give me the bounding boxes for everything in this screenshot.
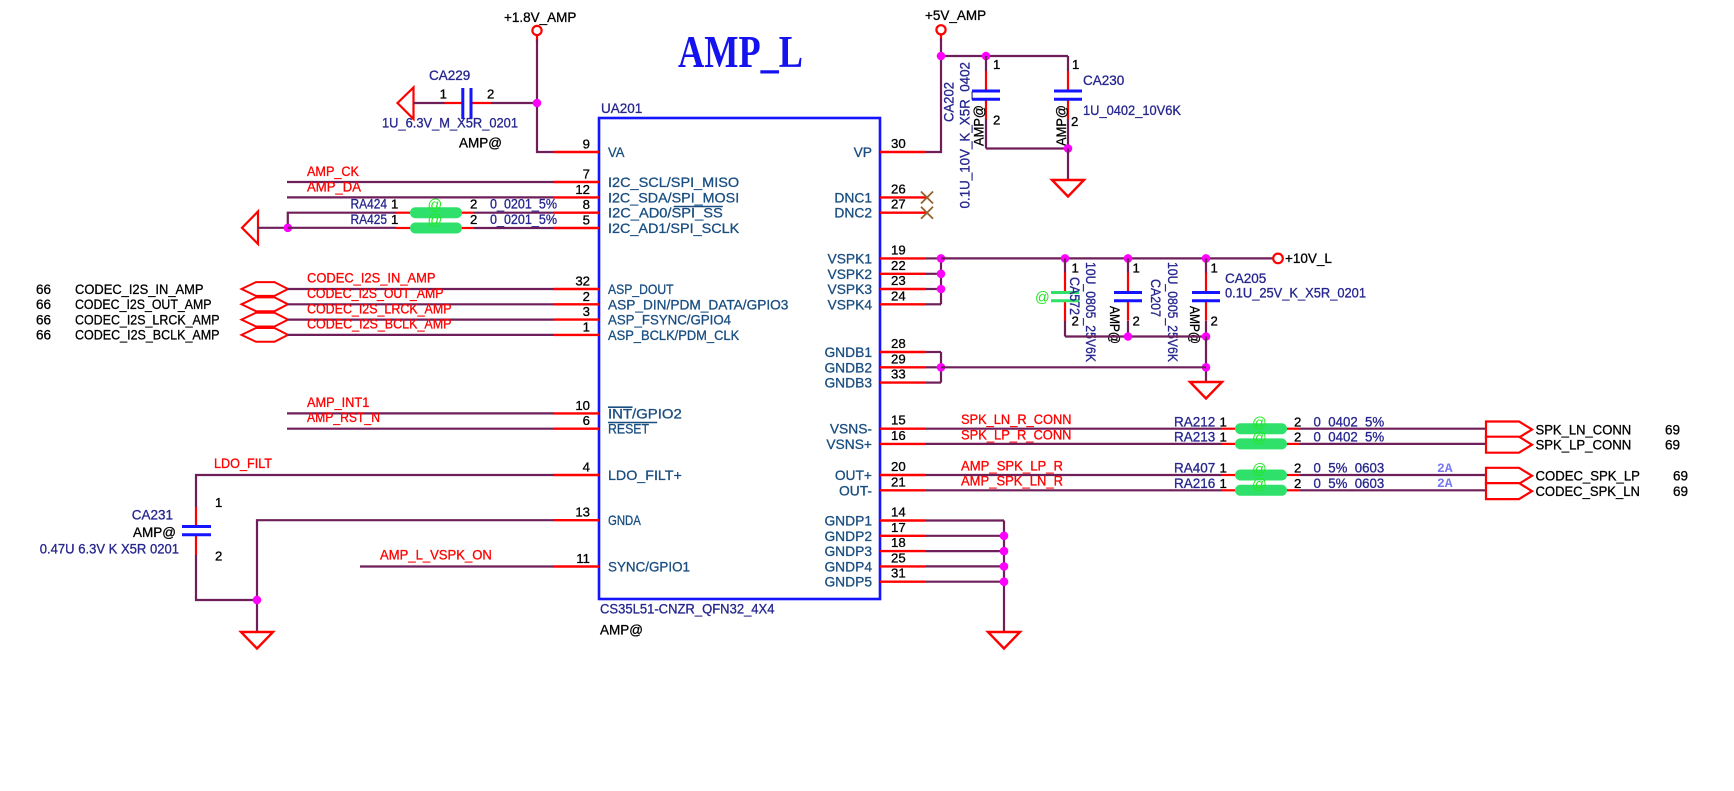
- svg-text:CODEC_SPK_LP: CODEC_SPK_LP: [1536, 469, 1640, 484]
- resistor RA425: [288, 213, 474, 234]
- off-page connector CODEC_I2S_IN_AMP (bidirectional): [242, 282, 289, 296]
- svg-text:@: @: [428, 213, 443, 229]
- svg-text:2: 2: [470, 197, 477, 212]
- junction GNDA/CA231 ground net: [253, 596, 262, 605]
- junction +10V at CA207: [1124, 254, 1133, 263]
- svg-text:28: 28: [891, 336, 906, 351]
- off-page connector CODEC_SPK_LN (output): [1486, 483, 1532, 499]
- wire junction up to RA424 row: [288, 213, 396, 228]
- capacitor CA207: [1114, 258, 1142, 336]
- capacitor CA202: [972, 56, 1000, 149]
- svg-text:2: 2: [1072, 314, 1079, 329]
- svg-text:GNDP4: GNDP4: [824, 559, 872, 574]
- svg-text:5: 5: [583, 213, 590, 228]
- UA201 pin 25 (GNDP4): [824, 550, 926, 574]
- signal list entry 66 CODEC_I2S_OUT_AMP: [36, 297, 212, 312]
- svg-text:AMP@: AMP@: [459, 136, 502, 151]
- svg-text:66: 66: [36, 312, 51, 327]
- svg-text:24: 24: [891, 288, 906, 303]
- svg-text:@: @: [1035, 290, 1050, 306]
- UA201 pin 9 (VA): [554, 137, 626, 161]
- junction +5V at CA202: [982, 52, 991, 61]
- svg-text:OUT-: OUT-: [839, 483, 872, 498]
- capacitor CA231: [182, 507, 211, 555]
- svg-text:CODEC_I2S_BCLK_AMP: CODEC_I2S_BCLK_AMP: [75, 328, 220, 343]
- junction VSPK bus 3: [937, 285, 946, 294]
- svg-text:RA213: RA213: [1174, 430, 1215, 445]
- svg-text:RESET: RESET: [608, 422, 650, 437]
- svg-text:I2C_AD1/SPI_SCLK: I2C_AD1/SPI_SCLK: [608, 221, 740, 236]
- off-page connector CODEC_SPK_LP (output): [1486, 468, 1532, 484]
- svg-text:AMP_INT1: AMP_INT1: [307, 395, 369, 410]
- svg-text:CA229: CA229: [429, 68, 470, 83]
- wire GNDB pins to bus: [926, 352, 941, 383]
- UA201 pin 16 (VSNS+): [826, 428, 926, 452]
- svg-text:RA425: RA425: [351, 212, 388, 227]
- UA201 pin 17 (GNDP2): [824, 520, 926, 544]
- svg-text:SPK_LN_CONN: SPK_LN_CONN: [1536, 422, 1632, 437]
- ground under CA230: [1052, 180, 1084, 197]
- wire RA213 to connector: [1300, 443, 1486, 445]
- wire to ground under CA230: [1067, 149, 1069, 181]
- UA201 pin 21 (OUT-): [839, 474, 926, 498]
- svg-text:0.1U_25V_K_X5R_0201: 0.1U_25V_K_X5R_0201: [1225, 286, 1366, 301]
- svg-text:VA: VA: [608, 145, 625, 160]
- svg-text:4: 4: [583, 460, 590, 475]
- ground under CA231/GNDA: [241, 632, 273, 649]
- wire pin to RA407: [926, 474, 1222, 476]
- svg-text:SYNC/GPIO1: SYNC/GPIO1: [608, 560, 690, 575]
- svg-text:9: 9: [583, 137, 590, 152]
- svg-text:33: 33: [891, 367, 906, 382]
- svg-text:GNDA: GNDA: [608, 513, 641, 528]
- off-page connector CODEC_I2S_LRCK_AMP (bidirectional): [242, 313, 289, 327]
- resistor RA407: [1222, 462, 1301, 481]
- svg-text:69: 69: [1665, 422, 1680, 437]
- svg-text:20: 20: [891, 459, 906, 474]
- svg-text:RA407: RA407: [1174, 461, 1215, 476]
- UA201 pin 3 (ASP_FSYNC/GPIO4): [554, 304, 732, 328]
- svg-text:0_5%_0603: 0_5%_0603: [1314, 461, 1385, 476]
- svg-text:AMP@: AMP@: [133, 525, 176, 540]
- UA201 pin 5 (I2C_AD1/SPI_SCLK): [554, 213, 741, 237]
- svg-text:CA207: CA207: [1148, 279, 1163, 317]
- svg-text:CA231: CA231: [132, 507, 173, 522]
- junction VSPK bus 1: [937, 254, 946, 263]
- UA201 pin 32 (ASP_DOUT): [554, 274, 675, 298]
- UA201 pin 20 (OUT+): [835, 459, 926, 483]
- svg-text:GNDP3: GNDP3: [824, 544, 872, 559]
- junction GNDB to ground: [1202, 363, 1211, 372]
- svg-text:CA230: CA230: [1083, 73, 1124, 88]
- wire CA231 pin2 to ground junction: [196, 555, 257, 600]
- svg-text:66: 66: [36, 328, 51, 343]
- UA201 pin 10 (INT/GPIO2): [554, 398, 682, 422]
- svg-text:66: 66: [36, 282, 51, 297]
- wire +10V_L rail: [941, 257, 1273, 259]
- junction GNDP bus 4: [1000, 577, 1009, 586]
- svg-text:AMP_CK: AMP_CK: [307, 164, 359, 179]
- junction +5V at VP riser: [937, 52, 946, 61]
- resistor RA424: [396, 197, 474, 218]
- svg-text:SPK_LP_R_CONN: SPK_LP_R_CONN: [961, 427, 1072, 442]
- svg-text:1: 1: [391, 212, 398, 227]
- svg-text:CS35L51-CNZR_QFN32_4X4: CS35L51-CNZR_QFN32_4X4: [600, 602, 775, 617]
- power symbol +1.8V_AMP: [504, 10, 576, 42]
- wire connector to CA229 pin1: [414, 102, 445, 104]
- svg-text:AMP_SPK_LN_R: AMP_SPK_LN_R: [961, 474, 1063, 489]
- UA201 pin 24 (VSPK4): [828, 288, 926, 312]
- svg-text:GNDB3: GNDB3: [824, 376, 872, 391]
- svg-text:31: 31: [891, 566, 906, 581]
- svg-text:OUT+: OUT+: [835, 468, 872, 483]
- svg-text:0_5%_0603: 0_5%_0603: [1314, 476, 1385, 491]
- junction +5V decoupling ground: [1064, 144, 1073, 153]
- svg-text:1: 1: [440, 87, 447, 102]
- svg-text:1: 1: [1072, 261, 1079, 276]
- svg-text:2A: 2A: [1437, 461, 1453, 476]
- resistor RA213: [1222, 431, 1301, 450]
- junction +10V at CA205: [1202, 254, 1211, 263]
- svg-text:CODEC_I2S_LRCK_AMP: CODEC_I2S_LRCK_AMP: [75, 312, 220, 327]
- svg-text:VSNS-: VSNS-: [830, 422, 872, 437]
- svg-text:AMP_L: AMP_L: [678, 26, 803, 77]
- svg-text:32: 32: [575, 274, 590, 289]
- resistor RA216: [1222, 477, 1301, 496]
- UA201 pin 15 (VSNS-): [830, 413, 926, 437]
- wire +5V_AMP horizontal rail: [941, 55, 1068, 57]
- wire capacitor bottoms: [1065, 335, 1206, 337]
- svg-text:GNDB2: GNDB2: [824, 360, 872, 375]
- junction GNDP bus 3: [1000, 562, 1009, 571]
- svg-text:2: 2: [1211, 314, 1218, 329]
- svg-text:15: 15: [891, 413, 906, 428]
- UA201 pin 28 (GNDB1): [824, 336, 926, 360]
- svg-text:LDO_FILT+: LDO_FILT+: [608, 468, 682, 483]
- svg-text:0_0201_5%: 0_0201_5%: [490, 212, 557, 227]
- svg-text:SPK_LN_R_CONN: SPK_LN_R_CONN: [961, 412, 1072, 427]
- capacitor CA205: [1192, 258, 1220, 336]
- off-page connector SPK_LP_CONN (output): [1486, 437, 1532, 453]
- svg-text:VSPK3: VSPK3: [828, 282, 873, 297]
- power symbol +5V_AMP: [925, 8, 986, 41]
- svg-text:VSPK1: VSPK1: [828, 251, 872, 266]
- svg-text:AMP_SPK_LP_R: AMP_SPK_LP_R: [961, 458, 1063, 473]
- svg-text:23: 23: [891, 273, 906, 288]
- wire VSPK pins to bus: [926, 258, 941, 304]
- wire +1.8V_AMP vertical to VA: [537, 40, 554, 153]
- svg-text:10U_0805_25V6K: 10U_0805_25V6K: [1083, 262, 1098, 362]
- svg-text:0_0402_5%: 0_0402_5%: [1314, 414, 1385, 429]
- svg-text:1: 1: [1220, 476, 1227, 491]
- svg-text:CA205: CA205: [1225, 271, 1266, 286]
- svg-text:CODEC_I2S_IN_AMP: CODEC_I2S_IN_AMP: [307, 271, 436, 286]
- svg-text:10: 10: [575, 398, 590, 413]
- wire AMP_RST_N: [287, 428, 554, 430]
- svg-text:VSNS+: VSNS+: [826, 437, 872, 452]
- UA201 pin 6 (RESET): [554, 413, 658, 437]
- junction GNDB bus: [937, 363, 946, 372]
- svg-text:AMP@: AMP@: [1107, 306, 1122, 344]
- svg-text:2: 2: [487, 87, 494, 102]
- svg-text:AMP_L_VSPK_ON: AMP_L_VSPK_ON: [380, 548, 492, 563]
- svg-text:0_0201_5%: 0_0201_5%: [490, 197, 557, 212]
- off-page connector arrow (CA229 pin 1 / AGND): [398, 88, 414, 120]
- UA201 pin 30 (VP): [854, 136, 926, 160]
- wire AMP_L_VSPK_ON: [360, 565, 554, 567]
- svg-text:2: 2: [1071, 114, 1078, 129]
- svg-text:GNDP1: GNDP1: [824, 514, 872, 529]
- svg-text:26: 26: [891, 181, 906, 196]
- capacitor CA230: [1054, 56, 1082, 149]
- wire CODEC_I2S_OUT_AMP: [288, 303, 554, 305]
- svg-text:2: 2: [1294, 414, 1301, 429]
- svg-text:11: 11: [576, 551, 590, 566]
- svg-text:2: 2: [993, 113, 1000, 128]
- svg-text:AMP@: AMP@: [972, 105, 987, 146]
- wire LDO_FILT: [196, 475, 554, 507]
- svg-text:@: @: [1252, 462, 1267, 478]
- svg-text:1U_0402_10V6K: 1U_0402_10V6K: [1083, 103, 1181, 118]
- wire RA425 to pin 5: [474, 227, 554, 229]
- svg-text:AMP_RST_N: AMP_RST_N: [307, 410, 380, 425]
- svg-text:AMP@: AMP@: [1054, 105, 1069, 146]
- power symbol +10V_L: [1273, 251, 1332, 266]
- wire CODEC_I2S_LRCK_AMP: [288, 319, 554, 321]
- wire RA216 to connector: [1300, 489, 1486, 491]
- UA201 pin 29 (GNDB2): [824, 351, 926, 375]
- svg-text:7: 7: [583, 167, 590, 182]
- svg-text:3: 3: [583, 304, 590, 319]
- off-page connector CODEC_I2S_BCLK_AMP (bidirectional): [242, 328, 289, 342]
- svg-text:+5V_AMP: +5V_AMP: [925, 8, 986, 23]
- svg-text:UA201: UA201: [601, 101, 642, 116]
- junction RA424/RA425 net: [284, 224, 293, 233]
- svg-text:ASP_DOUT: ASP_DOUT: [608, 282, 674, 297]
- svg-text:0.1U_10V_K_X5R_0402: 0.1U_10V_K_X5R_0402: [958, 62, 973, 209]
- svg-text:2: 2: [1294, 461, 1301, 476]
- wire RA407 to connector: [1300, 474, 1486, 476]
- svg-text:1: 1: [215, 495, 222, 510]
- svg-text:I2C_SDA/SPI_MOSI: I2C_SDA/SPI_MOSI: [608, 190, 739, 205]
- wire CODEC_I2S_BCLK_AMP: [288, 334, 554, 336]
- svg-text:25: 25: [891, 550, 906, 565]
- svg-text:1: 1: [1211, 261, 1218, 276]
- UA201 pin 22 (VSPK2): [828, 258, 926, 282]
- wire GNDA to ground: [257, 520, 554, 632]
- junction GNDP bus 2: [1000, 547, 1009, 556]
- svg-text:CODEC_I2S_IN_AMP: CODEC_I2S_IN_AMP: [75, 282, 204, 297]
- svg-text:RA216: RA216: [1174, 476, 1215, 491]
- svg-text:CODEC_I2S_LRCK_AMP: CODEC_I2S_LRCK_AMP: [307, 301, 452, 316]
- signal list entry 66 CODEC_I2S_LRCK_AMP: [36, 312, 220, 327]
- svg-text:18: 18: [891, 535, 906, 550]
- wire AMP_DA: [287, 196, 554, 198]
- svg-text:@: @: [428, 197, 443, 213]
- svg-text:1: 1: [391, 197, 398, 212]
- capacitor CA229: [445, 88, 492, 119]
- ground under CA205: [1190, 382, 1222, 399]
- svg-text:1: 1: [1072, 57, 1079, 72]
- svg-text:21: 21: [891, 474, 906, 489]
- svg-text:1: 1: [1220, 414, 1227, 429]
- capacitor CA572 (not stuffed): [1035, 258, 1079, 336]
- UA201 pin 18 (GNDP3): [824, 535, 926, 559]
- svg-text:GNDP2: GNDP2: [824, 529, 872, 544]
- off-page connector arrow (RA424/RA425 / AGND): [242, 212, 258, 245]
- svg-text:@: @: [1252, 477, 1267, 493]
- wire AMP_CK: [287, 181, 554, 183]
- svg-text:CA572: CA572: [1067, 277, 1082, 315]
- svg-text:16: 16: [891, 428, 906, 443]
- svg-text:0.47U 6.3V K X5R 0201: 0.47U 6.3V K X5R 0201: [40, 541, 179, 556]
- svg-text:17: 17: [891, 520, 906, 535]
- no-connect X on pin 26 (DNC1): [921, 192, 933, 204]
- UA201 pin 2 (ASP_DIN/PDM_DATA/GPIO3): [554, 289, 789, 313]
- svg-text:I2C_SCL/SPI_MISO: I2C_SCL/SPI_MISO: [608, 175, 739, 190]
- wire connector to junction: [258, 227, 288, 229]
- wire AMP_INT1: [287, 412, 554, 414]
- svg-text:2: 2: [215, 549, 222, 564]
- svg-text:ASP_DIN/PDM_DATA/GPIO3: ASP_DIN/PDM_DATA/GPIO3: [608, 297, 789, 312]
- signal list entry 66 CODEC_I2S_IN_AMP: [36, 282, 204, 297]
- wire pin to RA212: [926, 428, 1222, 430]
- svg-text:69: 69: [1665, 438, 1680, 453]
- svg-text:ASP_FSYNC/GPIO4: ASP_FSYNC/GPIO4: [608, 313, 731, 328]
- no-connect X on pin 27 (DNC2): [921, 207, 933, 219]
- junction cap bottoms at CA205: [1202, 332, 1211, 341]
- wire CODEC_I2S_IN_AMP: [288, 288, 554, 290]
- svg-text:2: 2: [470, 212, 477, 227]
- UA201 pin 27 (DNC2): [834, 197, 926, 221]
- svg-text:1: 1: [1220, 461, 1227, 476]
- svg-text:CODEC_I2S_BCLK_AMP: CODEC_I2S_BCLK_AMP: [307, 317, 452, 332]
- svg-text:RA212: RA212: [1174, 414, 1215, 429]
- svg-text:27: 27: [891, 197, 906, 212]
- op-amp IC UA201 CS35L51 body: [599, 118, 880, 599]
- svg-text:AMP_DA: AMP_DA: [307, 180, 361, 195]
- svg-text:14: 14: [891, 505, 906, 520]
- junction VSPK bus 2: [937, 270, 946, 279]
- wire CA229 pin2 to +1.8V net: [491, 102, 537, 104]
- svg-text:CA202: CA202: [942, 82, 957, 122]
- svg-text:13: 13: [575, 505, 590, 520]
- off-page connector CODEC_I2S_OUT_AMP (bidirectional): [242, 297, 289, 311]
- signal list entry 66 CODEC_I2S_BCLK_AMP: [36, 328, 220, 343]
- wire CA202 pin2 to CA230 pin2: [986, 147, 1068, 149]
- UA201 pin 31 (GNDP5): [824, 566, 926, 590]
- wire pin to RA213: [926, 443, 1222, 445]
- svg-text:19: 19: [891, 242, 906, 257]
- ground under GNDP: [988, 632, 1020, 649]
- svg-text:1: 1: [993, 57, 1000, 72]
- junction +1.8V_AMP at CA229: [533, 99, 542, 108]
- UA201 pin 23 (VSPK3): [828, 273, 926, 297]
- svg-text:10U_0805_25V6K: 10U_0805_25V6K: [1165, 262, 1180, 362]
- svg-text:2: 2: [583, 289, 590, 304]
- UA201 pin 4 (LDO_FILT+): [554, 460, 682, 484]
- junction +10V at CA572: [1061, 254, 1070, 263]
- svg-text:ASP_BCLK/PDM_CLK: ASP_BCLK/PDM_CLK: [608, 328, 740, 343]
- svg-text:6: 6: [583, 413, 590, 428]
- svg-text:69: 69: [1673, 484, 1688, 499]
- svg-text:2A: 2A: [1437, 476, 1453, 491]
- UA201 pin 26 (DNC1): [834, 181, 926, 205]
- junction cap bottoms at CA207: [1124, 332, 1133, 341]
- UA201 pin 19 (VSPK1): [828, 242, 926, 266]
- svg-text:LDO_FILT: LDO_FILT: [214, 456, 272, 471]
- svg-text:1: 1: [1220, 430, 1227, 445]
- resistor RA212: [1222, 416, 1301, 435]
- wire CA205 bottom to ground: [1205, 337, 1207, 383]
- svg-text:I2C_AD0/SPI_SS: I2C_AD0/SPI_SS: [608, 206, 723, 221]
- svg-text:2: 2: [1294, 430, 1301, 445]
- svg-text:CODEC_SPK_LN: CODEC_SPK_LN: [1536, 484, 1640, 499]
- svg-text:1: 1: [1133, 261, 1140, 276]
- svg-text:+10V_L: +10V_L: [1285, 251, 1332, 266]
- UA201 pin 12 (I2C_SDA/SPI_MOSI): [554, 182, 740, 206]
- svg-text:8: 8: [583, 197, 590, 212]
- wire GNDB bus to ground node: [941, 366, 1206, 368]
- svg-text:INT/GPIO2: INT/GPIO2: [608, 406, 682, 421]
- junction GNDP bus 1: [1000, 532, 1009, 541]
- wire RA212 to connector: [1300, 428, 1486, 430]
- UA201 pin 8 (I2C_AD0/SPI_SS): [554, 197, 723, 221]
- svg-text:69: 69: [1673, 469, 1688, 484]
- UA201 pin 13 (GNDA): [554, 505, 642, 529]
- wire pin to RA216: [926, 489, 1222, 491]
- UA201 pin 1 (ASP_BCLK/PDM_CLK): [554, 319, 740, 343]
- svg-text:12: 12: [575, 182, 590, 197]
- svg-text:+1.8V_AMP: +1.8V_AMP: [504, 10, 576, 25]
- svg-text:2: 2: [1294, 476, 1301, 491]
- svg-text:0_0402_5%: 0_0402_5%: [1314, 430, 1385, 445]
- svg-text:VSPK2: VSPK2: [828, 267, 872, 282]
- svg-text:29: 29: [891, 351, 906, 366]
- svg-text:AMP@: AMP@: [600, 623, 643, 638]
- svg-text:RA424: RA424: [351, 197, 388, 212]
- UA201 pin 11 (SYNC/GPIO1): [554, 551, 691, 575]
- svg-text:AMP@: AMP@: [1187, 306, 1202, 344]
- svg-text:30: 30: [891, 136, 906, 151]
- UA201 pin 7 (I2C_SCL/SPI_MISO): [554, 167, 740, 191]
- off-page connector SPK_LN_CONN (output): [1486, 422, 1532, 438]
- svg-text:SPK_LP_CONN: SPK_LP_CONN: [1536, 438, 1632, 453]
- svg-text:22: 22: [891, 258, 906, 273]
- UA201 pin 14 (GNDP1): [824, 505, 926, 529]
- svg-text:GNDB1: GNDB1: [824, 345, 872, 360]
- svg-text:1: 1: [583, 319, 590, 334]
- svg-text:VSPK4: VSPK4: [828, 297, 873, 312]
- svg-text:CODEC_I2S_OUT_AMP: CODEC_I2S_OUT_AMP: [307, 286, 444, 301]
- wire GNDP pins to bus: [926, 521, 1004, 633]
- wire +5V_AMP vertical / VP connection: [926, 39, 941, 152]
- svg-text:66: 66: [36, 297, 51, 312]
- svg-text:@: @: [1252, 416, 1267, 432]
- svg-text:GNDP5: GNDP5: [824, 575, 872, 590]
- svg-text:DNC1: DNC1: [834, 190, 872, 205]
- svg-text:DNC2: DNC2: [834, 206, 872, 221]
- svg-text:CODEC_I2S_OUT_AMP: CODEC_I2S_OUT_AMP: [75, 297, 212, 312]
- svg-text:@: @: [1252, 431, 1267, 447]
- UA201 pin 33 (GNDB3): [824, 367, 926, 391]
- wire RA424 to pin 8: [474, 212, 554, 214]
- svg-text:1U_6.3V_M_X5R_0201: 1U_6.3V_M_X5R_0201: [382, 116, 518, 131]
- svg-text:2: 2: [1133, 314, 1140, 329]
- svg-text:VP: VP: [854, 145, 872, 160]
